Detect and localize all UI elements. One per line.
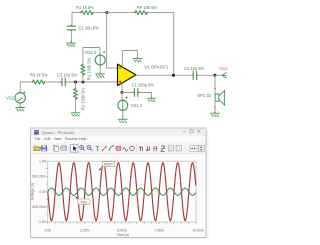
svg-text:Process: Process xyxy=(65,137,78,141)
capacitor C1 bypass xyxy=(122,83,154,98)
svg-text:10.00m: 10.00m xyxy=(192,229,203,233)
svg-text:7.50m: 7.50m xyxy=(155,229,165,233)
svg-text:RF 10k 5%: RF 10k 5% xyxy=(137,5,158,10)
svg-text:VG1: VG1 xyxy=(81,200,88,204)
svg-text:SP1 32: SP1 32 xyxy=(198,93,212,98)
x axis labels xyxy=(45,229,204,233)
resistor R3 xyxy=(30,72,48,84)
ground right of bypass cap xyxy=(148,98,156,101)
waveform VOUT (red) xyxy=(48,163,196,221)
toolbar icon cursors-a xyxy=(153,146,158,151)
wire VG1 to ground xyxy=(19,103,21,107)
wire node to RF xyxy=(107,12,135,14)
wire C1 to ground xyxy=(70,30,72,43)
y axis labels xyxy=(31,159,45,224)
svg-text:R1 100k 5%: R1 100k 5% xyxy=(87,57,92,80)
node supply junction xyxy=(121,91,124,94)
wire Vout node down to speaker xyxy=(214,75,216,94)
toolbar icon cursors-b xyxy=(160,146,165,151)
wire C1 branch xyxy=(71,13,73,26)
wire R3 to C3 xyxy=(45,81,63,83)
svg-text:Help: Help xyxy=(79,137,86,141)
toolbar icon eraser xyxy=(116,146,121,150)
toolbar separator xyxy=(68,145,70,152)
node R2 junction xyxy=(74,81,77,84)
svg-text:U1 OPA1671: U1 OPA1671 xyxy=(145,64,170,69)
ground op-amp supply xyxy=(133,58,142,61)
svg-text:Time (s): Time (s) xyxy=(117,233,130,237)
svg-text:-500.00m: -500.00m xyxy=(31,205,45,209)
node R1 divider junction xyxy=(81,81,84,84)
svg-text:VOUT: VOUT xyxy=(104,163,113,167)
wire op-amp output to Vout node xyxy=(136,74,193,76)
waveform VG1 (green) xyxy=(48,188,196,195)
toolbar icon print xyxy=(61,145,67,150)
svg-text:C1 100u 5%: C1 100u 5% xyxy=(132,83,155,88)
svg-text:File: File xyxy=(35,137,41,141)
toolbar icon copy xyxy=(53,145,58,151)
toolbar icon zoom-in xyxy=(80,145,85,150)
wire speaker to ground xyxy=(214,101,216,113)
svg-text:T: T xyxy=(96,146,100,153)
plot frame xyxy=(48,161,196,222)
toolbar separator xyxy=(136,145,138,152)
diagram window shadow xyxy=(33,130,209,240)
resistor RF xyxy=(135,5,157,15)
toolbar icon grid xyxy=(176,146,181,151)
node Vout output pin xyxy=(215,66,228,78)
toolbar separator xyxy=(93,145,95,152)
window buttons xyxy=(183,129,201,132)
resistor R1 xyxy=(76,5,94,15)
svg-text:Vout: Vout xyxy=(219,66,228,71)
svg-text:R2 100k 5%: R2 100k 5% xyxy=(80,87,85,110)
toolbar icon ellipse xyxy=(130,146,135,150)
toolbar icon open xyxy=(34,146,41,151)
ground below speaker xyxy=(211,113,220,116)
svg-text:1.00: 1.00 xyxy=(39,159,46,163)
ground below VS1 xyxy=(118,119,127,122)
svg-text:C2 10u 5%: C2 10u 5% xyxy=(184,66,205,71)
speaker SP1 xyxy=(198,90,225,105)
svg-text:2.50m: 2.50m xyxy=(80,229,90,233)
diagram window frame xyxy=(31,128,207,238)
svg-text:C1 10u 5%: C1 10u 5% xyxy=(79,26,100,31)
wire VG1 up to input rail xyxy=(20,82,33,93)
capacitor C1 xyxy=(67,26,99,31)
wire op-amp V- stub down xyxy=(121,83,123,93)
wire feedback node down to op-amp inverting input xyxy=(107,13,118,69)
ground below VG1 xyxy=(16,108,25,111)
wire top-left corner to R1 xyxy=(72,12,81,14)
svg-text:-1.00: -1.00 xyxy=(38,220,46,224)
curve label VG1 xyxy=(75,197,90,205)
curve label VOUT xyxy=(99,162,115,171)
menu bar xyxy=(35,137,87,141)
toolbar icon save xyxy=(41,146,47,152)
voltage source VG1 xyxy=(6,91,26,103)
capacitor C2 xyxy=(184,66,205,80)
svg-text:Edit: Edit xyxy=(44,137,50,141)
resistor R2 xyxy=(74,82,86,113)
svg-text:500.00m: 500.00m xyxy=(32,175,45,179)
wire R1 bias top to VG2 xyxy=(83,48,100,65)
voltage source VG2 xyxy=(85,50,106,65)
svg-text:VS1 2: VS1 2 xyxy=(131,103,143,108)
toolbar icon cursor (active) xyxy=(71,145,78,153)
toolbar icon arrow-down xyxy=(146,146,149,151)
svg-text:R1 1k 5%: R1 1k 5% xyxy=(76,5,94,10)
terminal pins (red) xyxy=(20,12,216,120)
voltage source VS1 xyxy=(118,93,143,120)
node feedback-output junction xyxy=(172,74,175,77)
toolbar icon line-draw xyxy=(102,146,107,151)
toolbar icon arrow-up xyxy=(139,146,142,151)
svg-text:View: View xyxy=(54,137,62,141)
wire C3 to op-amp noninverting input xyxy=(65,81,117,83)
svg-text:R3 1k 5%: R3 1k 5% xyxy=(30,72,48,77)
toolbar xyxy=(31,142,206,153)
wire R1 to feedback node xyxy=(93,12,107,14)
svg-text:C3 10u 5%: C3 10u 5% xyxy=(57,72,78,77)
ground below R2 xyxy=(71,113,80,116)
node Vout junction xyxy=(214,74,217,77)
capacitor C3 xyxy=(57,72,78,85)
resistor R1 bias (vertical) xyxy=(81,57,92,82)
wire C2 to Vout node xyxy=(197,74,215,76)
ground below C1 xyxy=(67,43,76,46)
wire op-amp V+ stub to ground xyxy=(122,51,137,68)
toolbar icon zoom-fit xyxy=(87,145,92,150)
toolbar icon legend xyxy=(168,146,173,151)
svg-text:VG2 2: VG2 2 xyxy=(85,50,97,55)
toolbar icon wave xyxy=(123,148,128,152)
svg-text:0.00: 0.00 xyxy=(39,190,46,194)
axis ticks xyxy=(46,161,196,224)
toolbar spinner control xyxy=(190,145,205,152)
title bar xyxy=(31,128,206,135)
op-amp U1 xyxy=(118,64,170,85)
toolbar icon curve-draw xyxy=(109,145,114,151)
svg-text:0.00: 0.00 xyxy=(45,229,52,233)
node feedback junction xyxy=(106,11,109,14)
ground below VG2 xyxy=(96,74,105,77)
wire VG2 to ground xyxy=(99,65,101,74)
plot gridlines xyxy=(48,161,196,222)
svg-text:Dynamo - TR result#1: Dynamo - TR result#1 xyxy=(42,131,75,135)
svg-text:VG1: VG1 xyxy=(6,95,15,100)
svg-text:Voltage (V): Voltage (V) xyxy=(31,183,35,200)
wire RF right down to output node xyxy=(147,13,174,76)
